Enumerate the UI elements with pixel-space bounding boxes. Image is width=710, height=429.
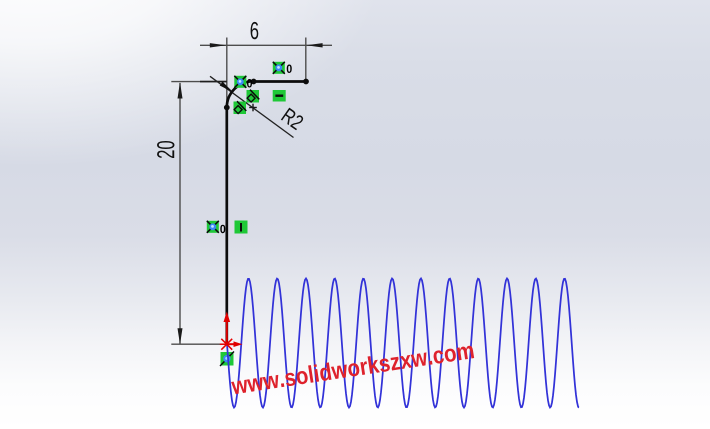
- dimension 6: left extension line: [226, 38, 228, 106]
- sketch horizontal line: [253, 80, 306, 83]
- dimension 6: right arrow: [306, 43, 322, 47]
- relation icon: coincident (corner) with label 0: [234, 76, 252, 88]
- relation icon: tangent 1: [247, 90, 260, 103]
- radius dimension R2: leader line: [210, 76, 294, 137]
- dimension 6: dimension line: [200, 44, 332, 46]
- dimension 20: bottom arrow: [178, 328, 183, 344]
- sketch fillet arc R2: [227, 81, 253, 107]
- helix projection curve (blue sine wave): [227, 279, 579, 408]
- relation icon: coincident (mid) with label 0: [207, 221, 226, 233]
- dimension 20: dimension line: [179, 83, 181, 344]
- relation icon: horizontal: [273, 90, 286, 102]
- origin marker: horizontal axis arrow: [227, 341, 243, 347]
- sketch vertical line: [225, 108, 228, 345]
- dimension 20: value text: [157, 141, 174, 158]
- dimension 6: right extension line: [305, 38, 307, 80]
- sketch endpoint dot: arc-horizontal junction: [251, 79, 257, 85]
- watermark www.solidworkszxw.com: [230, 341, 474, 395]
- dimension 20: top extension line: [171, 81, 227, 83]
- radius dimension R2: arrow: [220, 82, 234, 93]
- radius dimension R2: value text: [281, 107, 305, 130]
- relation icon: vertical: [235, 221, 248, 234]
- arc center mark: [249, 104, 257, 112]
- dimension 6: left arrow: [210, 43, 226, 47]
- dimension 20: top arrow: [178, 82, 183, 99]
- dimension 6: value text: [251, 22, 259, 39]
- relation icon: coincident (top) with label 0: [273, 62, 292, 74]
- origin marker: vertical axis arrow: [224, 312, 231, 345]
- sketch endpoint dot: right end: [303, 79, 309, 85]
- relation icon: coincident at origin: [220, 352, 234, 367]
- relation icon: tangent 2: [234, 101, 247, 114]
- sketch endpoint dot: arc-vertical junction: [224, 105, 230, 111]
- origin marker: X cross: [220, 339, 234, 350]
- dimension 20: bottom extension line: [171, 343, 227, 345]
